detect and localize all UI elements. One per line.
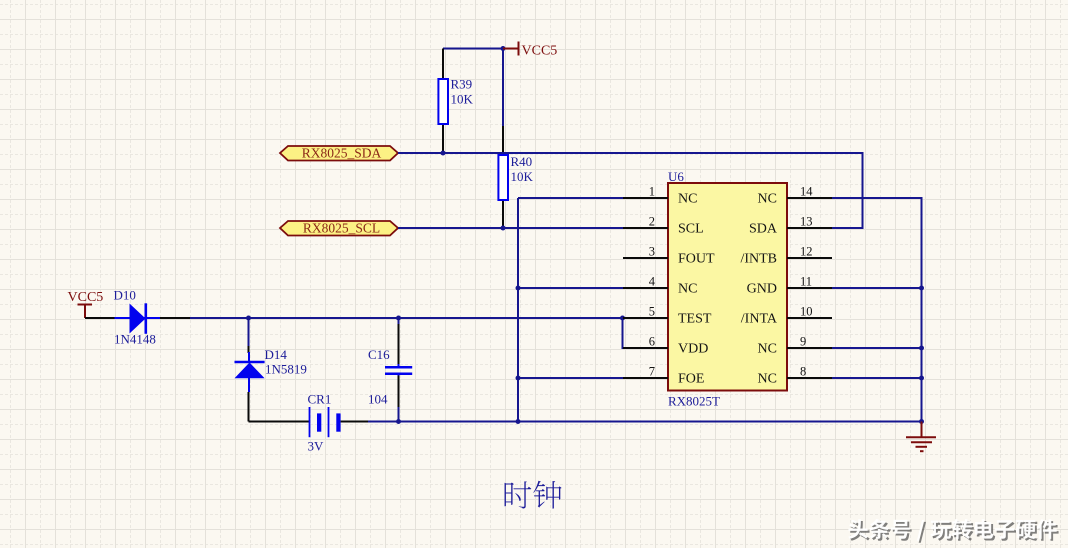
svg-text:5: 5 [649, 305, 655, 319]
svg-text:U6: U6 [668, 169, 684, 184]
svg-text:RX8025_SDA: RX8025_SDA [302, 146, 382, 161]
junction TEST node [620, 316, 625, 321]
power port VCC5 (top) [503, 42, 557, 59]
svg-text:NC: NC [758, 192, 777, 207]
battery CR1 3V [249, 392, 370, 454]
junction V1 bottom [516, 419, 521, 424]
svg-text:R40: R40 [511, 154, 533, 169]
svg-text:FOE: FOE [678, 372, 704, 387]
svg-text:3V: 3V [308, 439, 325, 454]
capacitor C16 104 [368, 318, 412, 422]
junction pin9 [919, 346, 924, 351]
svg-text:10K: 10K [511, 169, 534, 184]
svg-text:14: 14 [800, 185, 813, 199]
svg-text:C16: C16 [368, 347, 390, 362]
junction C16 bottom [396, 419, 401, 424]
power port VCC5 (left) [68, 290, 104, 318]
U6 pin 14 (NC) [758, 185, 832, 207]
svg-text:RX8025T: RX8025T [668, 394, 720, 409]
U6 pin 9 (NC) [758, 335, 832, 357]
wire pin7 (FOE) [518, 377, 623, 379]
svg-text:6: 6 [649, 335, 655, 349]
svg-text:2: 2 [649, 215, 655, 229]
svg-text:7: 7 [649, 365, 655, 379]
U6 pin 10 (/INTA) [741, 305, 832, 327]
U6 pin 13 (SDA) [749, 215, 832, 237]
wire pin1 [518, 197, 623, 199]
svg-text:GND: GND [747, 282, 777, 297]
svg-text:3: 3 [649, 245, 655, 259]
svg-text:10K: 10K [451, 92, 474, 107]
wire VCC rail (TEST net) [190, 317, 623, 319]
svg-text:CR1: CR1 [308, 392, 332, 407]
svg-text:VCC5: VCC5 [522, 44, 558, 59]
svg-text:1N4148: 1N4148 [114, 332, 156, 347]
U6 pin 11 (GND) [747, 275, 832, 297]
svg-text:1: 1 [649, 185, 655, 199]
U6 pin 8 (NC) [758, 365, 832, 387]
wire SCL net [398, 227, 623, 229]
junction R40-SCL [501, 226, 506, 231]
junction pin7 [516, 376, 521, 381]
svg-text:NC: NC [758, 372, 777, 387]
svg-text:1N5819: 1N5819 [265, 362, 307, 377]
U6 pin 2 (SCL) [623, 215, 704, 237]
U6 pin 4 (NC) [623, 275, 697, 297]
svg-text:RX8025_SCL: RX8025_SCL [303, 221, 380, 236]
resistor R40 [498, 126, 533, 228]
svg-text:9: 9 [800, 335, 806, 349]
U6 pin 1 (NC) [623, 185, 697, 207]
svg-text:SDA: SDA [749, 222, 778, 237]
wire SDA net [398, 153, 863, 228]
wire VCC5 down to R40 [502, 49, 504, 127]
wire bottom rail (battery net) [368, 421, 922, 423]
junction pin11 [919, 286, 924, 291]
svg-text:10: 10 [800, 305, 813, 319]
junction C16 top [396, 316, 401, 321]
svg-text:D10: D10 [114, 288, 136, 303]
svg-text:/INTA: /INTA [741, 312, 778, 327]
U6 pin 6 (VDD) [623, 335, 708, 357]
U6 pin 5 (TEST) [623, 305, 712, 327]
wire VCC5 top horizontal [443, 48, 503, 50]
wire pin11 (GND) [832, 287, 922, 289]
wire D14 branch vertical [248, 318, 250, 347]
svg-text:SCL: SCL [678, 222, 704, 237]
junction D14 branch [246, 316, 251, 321]
ground [906, 422, 936, 452]
junction ground node [919, 419, 924, 424]
port RX8025_SCL [280, 221, 398, 236]
junction R39-SDA [441, 151, 446, 156]
U6 pin 3 (FOUT) [623, 245, 715, 267]
wire pin8 [832, 377, 922, 379]
svg-text:NC: NC [758, 342, 777, 357]
diode D14 1N5819 [235, 346, 307, 422]
svg-text:4: 4 [649, 275, 656, 289]
svg-text:R39: R39 [451, 77, 473, 92]
port RX8025_SDA [280, 146, 398, 161]
svg-text:8: 8 [800, 365, 806, 379]
svg-text:/INTB: /INTB [740, 252, 777, 267]
svg-text:12: 12 [800, 245, 813, 259]
junction pin8 [919, 376, 924, 381]
text 时钟 (clock title) [505, 481, 562, 509]
diode D10 1N4148 [85, 288, 190, 347]
resistor R39 [438, 49, 473, 154]
wire TEST to VDD [623, 318, 669, 348]
svg-text:VDD: VDD [678, 342, 708, 357]
svg-text:D14: D14 [265, 347, 288, 362]
svg-text:104: 104 [368, 392, 388, 407]
junction pin4 [516, 286, 521, 291]
watermark 头条号 / 玩转电子硬件 [848, 519, 1058, 543]
wire pin14 to ground bus [832, 198, 922, 422]
svg-text:NC: NC [678, 192, 697, 207]
junction VCC5 node [501, 46, 506, 51]
IC U6 RX8025T [668, 169, 787, 409]
svg-text:FOUT: FOUT [678, 252, 715, 267]
U6 pin 7 (FOE) [623, 365, 704, 387]
wire pin4 [518, 287, 623, 289]
svg-text:VCC5: VCC5 [68, 290, 104, 305]
svg-text:NC: NC [678, 282, 697, 297]
svg-text:13: 13 [800, 215, 813, 229]
svg-text:11: 11 [800, 275, 812, 289]
U6 pin 12 (/INTB) [740, 245, 832, 267]
wire NC/FOE vertical bus [517, 198, 519, 422]
svg-text:TEST: TEST [678, 312, 712, 327]
wire pin9 [832, 347, 922, 349]
